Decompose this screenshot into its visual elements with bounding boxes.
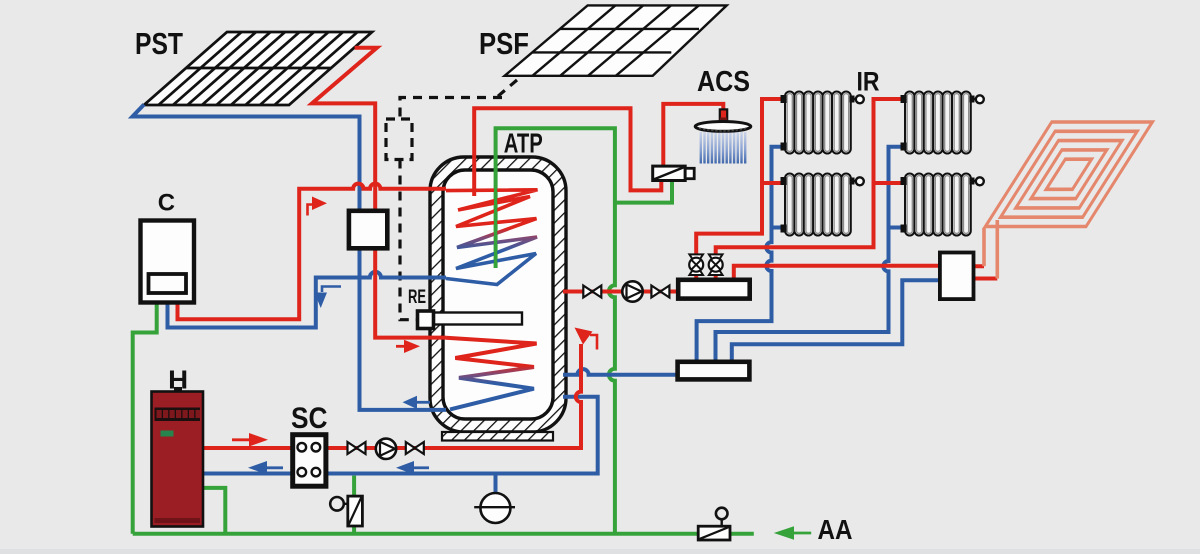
svg-text:ACS: ACS [697,66,750,98]
wire blue floor heating return [732,280,940,362]
floor heating box [940,253,974,300]
dashed connector PSF to solar station [400,80,517,119]
shower spray [701,132,745,164]
coil top (solar/boiler coil) [446,190,538,285]
manifold return bar [678,362,750,380]
svg-text:ATP: ATP [504,128,543,159]
green feed end inside tank [494,128,497,268]
wire red riser 2 to right radiators [716,99,906,280]
underfloor heating spiral [984,122,1152,279]
wire red riser 3 to floor heating box [734,266,940,280]
wire red DHW from tank top to mixing valve [474,108,661,190]
valve tank-to-manifold left [583,286,601,298]
svg-text:AA: AA [818,514,853,545]
wire green bottom rail [133,532,698,536]
wire green from boiler C [133,303,157,534]
wire blue tank right return from manifold [563,369,678,375]
arrow red H to SC [232,433,268,447]
valve before tank bottom [406,442,424,454]
wire blue radiator R3 tee [772,226,787,230]
wire blue right radiators return [716,147,907,362]
wire blue left radiators return [697,147,786,362]
wire red boiler H supply through SC to tank bottom [203,446,293,450]
solar pump station square [349,211,387,249]
dashed vertical to RE [400,160,418,320]
svg-text:IR: IR [857,66,880,96]
coil bottom [446,338,537,410]
wire red PST supply Z-drop [312,48,377,211]
solar panel PST [144,32,372,105]
svg-text:RE: RE [408,286,426,308]
wire green fill branch [352,476,356,534]
arrow red flag at tank right [575,328,598,350]
shower head [695,122,751,132]
tank pedestal [442,432,553,441]
wire blue PST return down through solar station [133,105,447,410]
electric resistance RE bar [431,313,522,325]
pump under tank [376,439,396,459]
heat exchanger SC [293,435,326,487]
wire red radiator R3 tee [762,181,786,185]
svg-text:C: C [158,189,175,216]
arrow red flag near solar station [308,197,328,216]
wire red mixed water to shower [663,104,723,166]
dashed box (PSF pump group placeholder) [386,119,412,160]
pump tank-to-manifold [622,281,642,301]
wire red radiator R4 tee [874,181,907,185]
solar panel PSF [505,5,727,75]
boiler H [152,387,204,527]
red DHW outlet inside tank [472,182,476,196]
radiator R1 [781,92,864,154]
shower stub [720,109,727,121]
manifold supply bar [678,280,750,299]
wire green from boiler H [203,488,225,534]
valve manifold side [651,286,669,298]
salmon feed tails [982,228,986,266]
wire green branch from mixing valve [615,181,672,203]
radiator R4 [901,174,984,236]
zone valve 1 [689,254,703,275]
svg-text:PSF: PSF [479,26,529,61]
arrow green AA inlet [774,526,811,540]
wire blue top coil return to boiler C [168,272,447,328]
wire red boiler C supply to top coil [178,184,447,320]
zone valve 2 [709,254,723,275]
wire red riser 1 to left radiators [696,99,786,280]
arrow blue right of SC [396,461,429,475]
wire blue flow meter stub [494,474,498,495]
wire red solar riser below station to bottom coil [375,248,446,337]
arrow blue SC to H [248,461,283,475]
wire red floor box right stubs [974,266,998,278]
arrow blue flag down to boiler C [315,287,342,309]
wire green cold feed into tank top [496,128,615,534]
radiator R2 [901,92,984,154]
flow meter [474,493,515,523]
arrow blue tank bottom left [403,396,431,409]
valve SC right [348,442,366,454]
AA inlet valve with gauge [698,508,730,540]
RE square [418,311,434,329]
svg-text:PST: PST [135,26,183,61]
boiler C [141,221,195,303]
fill valve with gauge (near SC) [330,496,362,526]
wire blue radiator R4 tee [889,226,907,230]
three-way mixing valve ACS [653,166,695,180]
arrow red under tank feed [396,340,420,353]
wire blue low port to SC and boiler H [203,397,598,474]
svg-text:H: H [168,366,188,394]
wire green AA stub [730,532,754,536]
wire red tank to radiator manifold [563,290,678,294]
svg-text:SC: SC [291,402,328,435]
radiator R3 [781,174,864,236]
buffer tank ATP wall [430,157,566,441]
